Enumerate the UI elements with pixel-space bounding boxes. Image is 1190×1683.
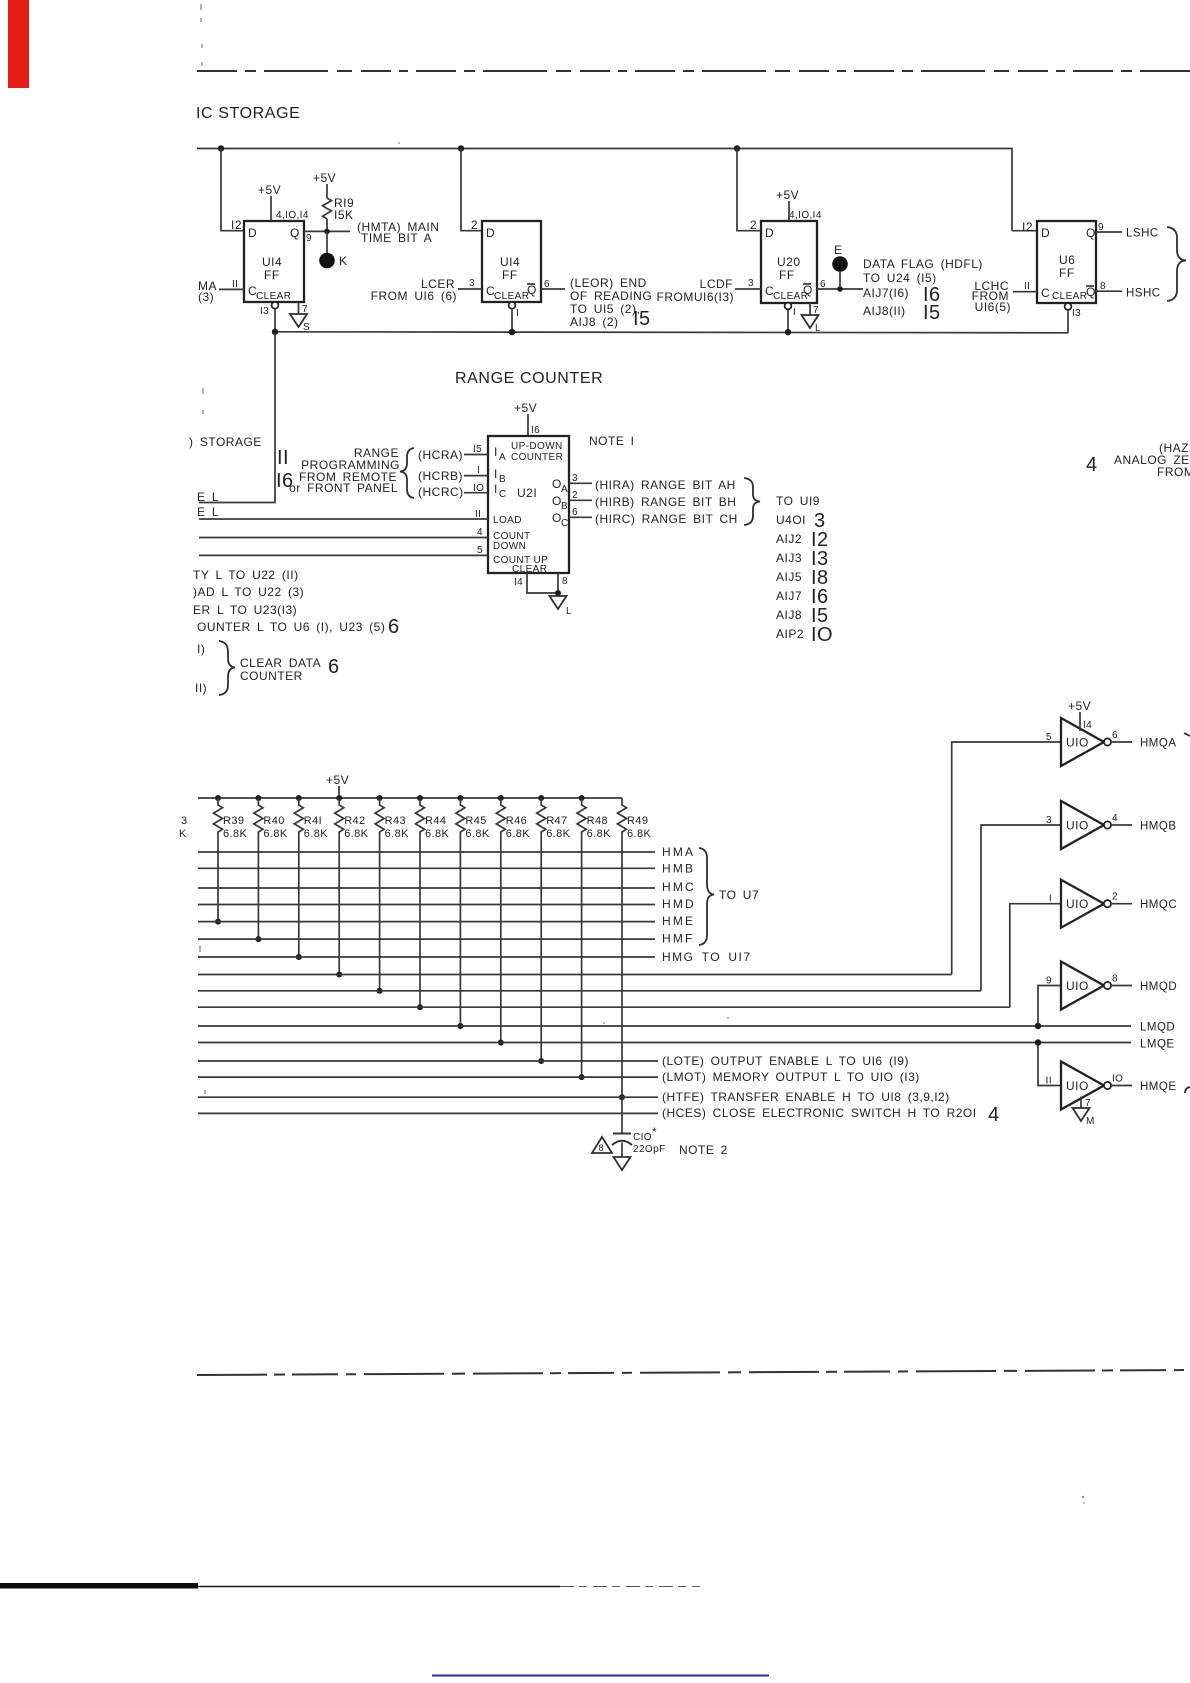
svg-text:or FRONT PANEL: or FRONT PANEL bbox=[289, 481, 398, 495]
left brace bbox=[400, 448, 414, 498]
svg-text:AIJ5: AIJ5 bbox=[776, 570, 802, 584]
svg-text:I5: I5 bbox=[633, 308, 651, 330]
svg-text:4: 4 bbox=[477, 527, 483, 538]
wire R46 down bbox=[500, 840, 502, 1043]
svg-text:COUNTER: COUNTER bbox=[511, 452, 563, 463]
bottom left black bar bbox=[0, 1583, 198, 1589]
wire: signal line 14 bbox=[198, 1076, 658, 1078]
svg-text:I2: I2 bbox=[1022, 220, 1033, 234]
wire: signal line 9 bbox=[198, 990, 981, 992]
faint specks bbox=[727, 1017, 729, 1019]
svg-text:2: 2 bbox=[750, 218, 757, 232]
svg-text:8: 8 bbox=[599, 1143, 604, 1153]
tick right of HMQA bbox=[1184, 733, 1190, 736]
wire: clear bus bbox=[275, 332, 1068, 333]
resistor R4I 6.8K bbox=[296, 795, 302, 801]
svg-text:DOWN: DOWN bbox=[493, 541, 526, 552]
svg-text:CLEAR DATA: CLEAR DATA bbox=[240, 656, 321, 670]
svg-text:FF: FF bbox=[502, 268, 518, 282]
svg-text:I: I bbox=[1049, 894, 1052, 905]
wire to U6 D bbox=[1012, 230, 1038, 232]
svg-text:AIJ7(I6): AIJ7(I6) bbox=[863, 286, 909, 300]
svg-text:K: K bbox=[179, 828, 187, 840]
svg-text:22OpF: 22OpF bbox=[633, 1144, 666, 1155]
svg-text:HMQD: HMQD bbox=[1140, 981, 1177, 993]
wire R49 down bbox=[621, 840, 623, 1097]
svg-text:2: 2 bbox=[471, 218, 478, 232]
svg-text:I: I bbox=[793, 307, 796, 318]
wire: resistor top rail bbox=[198, 797, 622, 799]
svg-text:L: L bbox=[566, 606, 572, 617]
wire COUNT UP pin 5 bbox=[199, 554, 488, 556]
svg-text:(HCRA): (HCRA) bbox=[418, 448, 463, 462]
node K (filled) bbox=[326, 231, 328, 253]
svg-text:I4: I4 bbox=[1083, 720, 1092, 731]
wire: signal line 15 bbox=[198, 1096, 658, 1098]
svg-text:HMQB: HMQB bbox=[1140, 821, 1177, 833]
svg-text:3: 3 bbox=[469, 278, 475, 289]
svg-text:CLEAR: CLEAR bbox=[256, 291, 291, 302]
wire: U14a pin13 down to E-L line bbox=[199, 332, 275, 503]
resistor R42 6.8K bbox=[336, 795, 342, 801]
wire R47 down bbox=[540, 840, 542, 1061]
svg-text:(HCES) CLOSE ELECTRONIC SWITCH: (HCES) CLOSE ELECTRONIC SWITCH H TO R2OI bbox=[662, 1106, 977, 1120]
svg-text:R4I: R4I bbox=[304, 815, 322, 827]
red scan artifact bar bbox=[8, 0, 29, 88]
pin 1 bubble bbox=[509, 302, 516, 309]
svg-text:6.8K: 6.8K bbox=[385, 828, 409, 840]
svg-text:9: 9 bbox=[1046, 976, 1052, 987]
svg-text:D: D bbox=[765, 226, 774, 240]
svg-text:RANGE COUNTER: RANGE COUNTER bbox=[455, 370, 603, 387]
svg-text:I: I bbox=[516, 308, 519, 319]
svg-text:A: A bbox=[561, 484, 568, 495]
svg-text:(LOTE) OUTPUT ENABLE L TO UI6: (LOTE) OUTPUT ENABLE L TO UI6 (I9) bbox=[662, 1054, 909, 1068]
svg-text:IO: IO bbox=[811, 624, 833, 646]
svg-text:(HTFE) TRANSFER ENABLE H TO UI: (HTFE) TRANSFER ENABLE H TO UI8 (3,9,I2) bbox=[662, 1090, 950, 1104]
resistor R46 6.8K bbox=[498, 795, 504, 801]
svg-text:3: 3 bbox=[181, 815, 188, 827]
svg-text:LOAD: LOAD bbox=[493, 515, 522, 526]
svg-text:+5V: +5V bbox=[776, 188, 799, 202]
svg-text:(LMOT) MEMORY OUTPUT L TO UIO: (LMOT) MEMORY OUTPUT L TO UIO (I3) bbox=[662, 1070, 920, 1084]
svg-text:UI4: UI4 bbox=[262, 255, 282, 269]
page edge dotted marks bbox=[200, 4, 205, 1094]
ground under C10 bbox=[614, 1157, 631, 1170]
flip-flop U20 box bbox=[761, 221, 817, 303]
svg-text:HMA: HMA bbox=[662, 845, 695, 859]
svg-text:8: 8 bbox=[562, 576, 568, 587]
svg-text:HMQE: HMQE bbox=[1140, 1081, 1177, 1093]
svg-text:R44: R44 bbox=[425, 815, 446, 827]
wire: signal line 12 bbox=[198, 1042, 1131, 1044]
svg-text:OUNTER L TO U6 (I), U23 (5): OUNTER L TO U6 (I), U23 (5) bbox=[197, 620, 385, 634]
svg-text:(HIRB) RANGE BIT BH: (HIRB) RANGE BIT BH bbox=[595, 495, 736, 509]
svg-text:II: II bbox=[277, 447, 289, 469]
svg-text:UIO: UIO bbox=[1066, 897, 1089, 911]
svg-text:I6: I6 bbox=[531, 425, 540, 436]
svg-text:AIJ8 (2): AIJ8 (2) bbox=[570, 315, 619, 329]
svg-text:+5V: +5V bbox=[258, 183, 281, 197]
svg-text:9: 9 bbox=[306, 233, 312, 244]
pin 13 bubble bbox=[272, 302, 279, 309]
svg-text:HMQC: HMQC bbox=[1140, 899, 1177, 911]
svg-text:FF: FF bbox=[1059, 266, 1075, 280]
svg-text:6.8K: 6.8K bbox=[506, 828, 530, 840]
svg-text:C: C bbox=[561, 518, 569, 529]
flip-flop U14a box bbox=[244, 221, 304, 302]
top dashed border line bbox=[197, 70, 1190, 72]
svg-text:6.8K: 6.8K bbox=[465, 828, 489, 840]
svg-text:II): II) bbox=[195, 681, 207, 695]
wire LOAD pin 11 bbox=[199, 518, 488, 520]
wire R4I down bbox=[298, 840, 300, 957]
svg-text:4,IO,I4: 4,IO,I4 bbox=[276, 210, 309, 221]
svg-text:K: K bbox=[339, 254, 348, 268]
svg-text:B: B bbox=[561, 501, 568, 512]
svg-text:I4: I4 bbox=[514, 577, 523, 588]
svg-text:I3: I3 bbox=[260, 306, 269, 317]
svg-text:(HCRB): (HCRB) bbox=[418, 469, 463, 483]
svg-text:HMG TO UI7: HMG TO UI7 bbox=[662, 950, 752, 964]
capacitor C10 220pF bbox=[621, 1097, 623, 1133]
pin 13 bubble U6 bbox=[1065, 303, 1072, 310]
svg-text:6.8K: 6.8K bbox=[344, 828, 368, 840]
wire to U14b D bbox=[461, 149, 482, 231]
wire to U20 D bbox=[737, 149, 761, 231]
svg-text:6: 6 bbox=[820, 279, 826, 290]
brace tick right of HMQE bbox=[1185, 1087, 1190, 1093]
svg-text:I5K: I5K bbox=[334, 208, 354, 222]
svg-text:CIO: CIO bbox=[633, 1132, 652, 1143]
svg-text:I: I bbox=[494, 445, 498, 459]
wire: signal line 7 bbox=[198, 956, 655, 958]
svg-text:AIJ7: AIJ7 bbox=[776, 589, 802, 603]
wire: signal line 11 bbox=[198, 1025, 1131, 1027]
buffer U10 HMQA bbox=[1061, 718, 1104, 766]
svg-text:E: E bbox=[834, 243, 843, 257]
svg-text:Q: Q bbox=[527, 283, 537, 297]
svg-text:6: 6 bbox=[572, 507, 578, 518]
svg-text:FROMUI6(I3): FROMUI6(I3) bbox=[657, 290, 735, 304]
svg-text:I6: I6 bbox=[276, 470, 294, 492]
svg-text:IO: IO bbox=[1112, 1074, 1123, 1085]
svg-text:FF: FF bbox=[779, 268, 795, 282]
wire: signal line 10 bbox=[198, 1006, 1010, 1008]
svg-text:*: * bbox=[652, 1125, 657, 1139]
wire: signal line 5 bbox=[198, 921, 655, 923]
svg-text:9: 9 bbox=[1098, 222, 1104, 233]
svg-text:(LEOR) END: (LEOR) END bbox=[570, 276, 647, 290]
svg-text:D: D bbox=[1041, 226, 1050, 240]
wire: signal line 13 bbox=[198, 1060, 658, 1062]
svg-text:R43: R43 bbox=[385, 815, 406, 827]
svg-text:LCDF: LCDF bbox=[700, 277, 733, 291]
svg-text:6.8K: 6.8K bbox=[223, 828, 247, 840]
resistor R49 6.8K bbox=[618, 798, 627, 840]
svg-text:IO: IO bbox=[473, 483, 484, 494]
svg-text:TO U7: TO U7 bbox=[719, 888, 759, 902]
svg-text:I: I bbox=[477, 465, 480, 476]
svg-text:II: II bbox=[232, 279, 238, 290]
svg-text:6.8K: 6.8K bbox=[587, 828, 611, 840]
wire R40 down bbox=[257, 840, 259, 939]
wire R45 down bbox=[459, 840, 461, 1026]
svg-text:2: 2 bbox=[572, 490, 578, 501]
svg-text:I5: I5 bbox=[923, 302, 941, 324]
U21 outputs (HIRA/HIRB/HIRC) bbox=[569, 482, 592, 484]
svg-text:TO UI9: TO UI9 bbox=[776, 494, 820, 508]
svg-text:6.8K: 6.8K bbox=[546, 828, 570, 840]
resistor R47 6.8K bbox=[538, 795, 544, 801]
svg-text:HME: HME bbox=[662, 914, 695, 928]
wire R42 down bbox=[338, 840, 340, 975]
svg-text:CLEAR: CLEAR bbox=[494, 291, 529, 302]
svg-text:Q: Q bbox=[803, 283, 813, 297]
svg-text:6: 6 bbox=[1112, 730, 1118, 741]
svg-text:3: 3 bbox=[748, 278, 754, 289]
svg-text:5: 5 bbox=[1046, 732, 1052, 743]
svg-text:6.8K: 6.8K bbox=[263, 828, 287, 840]
svg-text:6: 6 bbox=[544, 279, 550, 290]
warning triangle note 8 bbox=[592, 1137, 612, 1153]
svg-text:Q: Q bbox=[1086, 226, 1096, 240]
resistor R48 6.8K bbox=[579, 795, 585, 801]
svg-text:+5V: +5V bbox=[514, 401, 537, 415]
svg-text:I: I bbox=[494, 482, 498, 496]
svg-text:D: D bbox=[248, 226, 257, 240]
svg-text:UIO: UIO bbox=[1066, 819, 1089, 833]
svg-text:R46: R46 bbox=[506, 815, 527, 827]
svg-text:U20: U20 bbox=[777, 255, 801, 269]
svg-text:TO U24 (I5): TO U24 (I5) bbox=[863, 271, 937, 285]
resistor R40 6.8K bbox=[255, 795, 261, 801]
svg-text:HMB: HMB bbox=[662, 862, 695, 876]
LMQE tap to HMQE bbox=[1038, 1043, 1061, 1086]
wire R39 down bbox=[217, 840, 219, 922]
pin 7 ground S bbox=[298, 302, 300, 314]
pin 9 output LSHC bbox=[1096, 231, 1122, 233]
counter U21 box bbox=[488, 436, 569, 573]
svg-text:6.8K: 6.8K bbox=[627, 828, 651, 840]
wire: +5V top bus bbox=[197, 149, 1012, 231]
svg-text:U6: U6 bbox=[1059, 253, 1075, 267]
svg-text:6.8K: 6.8K bbox=[304, 828, 328, 840]
svg-text:AIP2: AIP2 bbox=[776, 627, 804, 641]
svg-text:R45: R45 bbox=[465, 815, 486, 827]
svg-text:5: 5 bbox=[477, 545, 483, 556]
svg-text:R48: R48 bbox=[587, 815, 608, 827]
svg-text:UIO: UIO bbox=[1066, 736, 1089, 750]
svg-text:6: 6 bbox=[328, 656, 340, 678]
ground M on HMQE buffer bbox=[1080, 1097, 1082, 1109]
svg-text:II: II bbox=[1024, 281, 1030, 292]
svg-text:6.8K: 6.8K bbox=[425, 828, 449, 840]
buffer U10 HMQC bbox=[1061, 880, 1104, 928]
svg-text:COUNTER: COUNTER bbox=[240, 669, 303, 683]
vertical wires up to buffers bbox=[952, 742, 1061, 975]
svg-text:UI4: UI4 bbox=[500, 255, 520, 269]
svg-text:+5V: +5V bbox=[313, 171, 336, 185]
svg-text:3: 3 bbox=[572, 473, 578, 484]
svg-text:LSHC: LSHC bbox=[1126, 228, 1159, 240]
svg-text:II: II bbox=[1046, 1076, 1052, 1087]
svg-text:C: C bbox=[1041, 286, 1050, 300]
svg-text:8: 8 bbox=[1112, 974, 1118, 985]
wire to U14a D bbox=[221, 149, 244, 231]
svg-text:LMQE: LMQE bbox=[1140, 1039, 1175, 1051]
svg-text:Q: Q bbox=[1086, 285, 1096, 299]
svg-text:NOTE 2: NOTE 2 bbox=[679, 1143, 728, 1157]
svg-text:TIME BIT A: TIME BIT A bbox=[361, 231, 432, 245]
svg-text:A: A bbox=[499, 452, 506, 463]
svg-text:D: D bbox=[486, 226, 495, 240]
svg-text:E L: E L bbox=[197, 490, 219, 504]
svg-text:TY L TO U22 (II): TY L TO U22 (II) bbox=[193, 568, 299, 582]
svg-text:AIJ2: AIJ2 bbox=[776, 532, 802, 546]
svg-text:FROM: FROM bbox=[1157, 465, 1190, 479]
svg-text:DATA FLAG (HDFL): DATA FLAG (HDFL) bbox=[863, 257, 983, 271]
wire: signal line 2 bbox=[198, 867, 655, 869]
pin 1 bubble U20 bbox=[785, 303, 792, 310]
node E (filled) bbox=[832, 256, 848, 272]
svg-text:4: 4 bbox=[988, 1104, 1000, 1126]
svg-text:UIO: UIO bbox=[1066, 1079, 1089, 1093]
brace right of HIRA/B/C bbox=[744, 478, 760, 525]
buffer U10 HMQD bbox=[1061, 962, 1104, 1010]
svg-text:UIO: UIO bbox=[1066, 979, 1089, 993]
svg-text:HMD: HMD bbox=[662, 897, 696, 911]
svg-text:TO UI5 (2),: TO UI5 (2), bbox=[570, 302, 640, 316]
wire: signal line 8 bbox=[198, 974, 952, 976]
resistor R43 6.8K bbox=[377, 795, 383, 801]
svg-text:UI6(5): UI6(5) bbox=[975, 300, 1011, 314]
svg-text:LMQD: LMQD bbox=[1140, 1022, 1175, 1034]
svg-text:U2I: U2I bbox=[517, 486, 537, 500]
svg-text:4,IO,I4: 4,IO,I4 bbox=[789, 210, 822, 221]
wire: signal line 16 bbox=[198, 1112, 658, 1114]
resistor R39 6.8K bbox=[215, 795, 221, 801]
svg-text:I: I bbox=[494, 467, 498, 481]
buffer U10 HMQE bbox=[1061, 1062, 1104, 1110]
svg-text:ER L TO U23(I3): ER L TO U23(I3) bbox=[193, 603, 297, 617]
svg-text:AIJ8(II): AIJ8(II) bbox=[863, 304, 906, 318]
node: bus junction dots bbox=[218, 145, 224, 151]
svg-text:4: 4 bbox=[1086, 454, 1098, 476]
svg-text:OF READING: OF READING bbox=[570, 289, 652, 303]
svg-text:I3: I3 bbox=[1072, 308, 1081, 319]
svg-text:6: 6 bbox=[388, 616, 400, 638]
wire R44 down bbox=[419, 840, 421, 1007]
blue underline bbox=[432, 1675, 769, 1677]
svg-text:II: II bbox=[475, 509, 481, 520]
svg-text:3: 3 bbox=[1046, 815, 1052, 826]
svg-text:FF: FF bbox=[264, 268, 280, 282]
wire Q output pin 9 bbox=[304, 230, 350, 232]
svg-text:I2: I2 bbox=[231, 218, 242, 232]
resistor R44 6.8K bbox=[417, 795, 423, 801]
svg-text:4: 4 bbox=[1112, 813, 1118, 824]
LMQD tap to HMQD bbox=[1038, 986, 1061, 1027]
svg-text:8: 8 bbox=[1100, 281, 1106, 292]
svg-text:Q: Q bbox=[290, 226, 300, 240]
svg-text:HMC: HMC bbox=[662, 880, 696, 894]
svg-text:AIJ8: AIJ8 bbox=[776, 608, 802, 622]
svg-text:HMQA: HMQA bbox=[1140, 738, 1177, 750]
bottom dashed border line bbox=[197, 1370, 1190, 1375]
svg-text:R40: R40 bbox=[263, 815, 284, 827]
svg-text:R49: R49 bbox=[627, 815, 648, 827]
flip-flop U6 box bbox=[1037, 221, 1096, 303]
svg-text:) STORAGE: ) STORAGE bbox=[189, 435, 262, 449]
flip-flop U14b box bbox=[482, 221, 541, 302]
wire COUNT DOWN pin 4 bbox=[199, 537, 488, 539]
svg-text:CLEAR: CLEAR bbox=[1052, 291, 1087, 302]
buffer U10 HMQB bbox=[1061, 801, 1104, 849]
svg-text:U4OI: U4OI bbox=[776, 513, 806, 527]
brace for TO U7 bbox=[699, 848, 714, 945]
svg-text:(3): (3) bbox=[198, 290, 214, 304]
svg-text:R39: R39 bbox=[223, 815, 244, 827]
svg-text:(HIRC) RANGE BIT CH: (HIRC) RANGE BIT CH bbox=[595, 512, 738, 526]
svg-text:E L: E L bbox=[197, 505, 219, 519]
svg-text:I5: I5 bbox=[473, 444, 482, 455]
wire R43 down bbox=[379, 840, 381, 991]
svg-text:(HIRA) RANGE BIT AH: (HIRA) RANGE BIT AH bbox=[595, 478, 736, 492]
U21 pin 14 and 8 to ground bbox=[527, 573, 558, 593]
svg-text:M: M bbox=[1086, 1116, 1095, 1127]
wire R48 down bbox=[581, 840, 583, 1077]
svg-text:FROM UI6 (6): FROM UI6 (6) bbox=[371, 289, 457, 303]
brace right of LSHC/HSHC bbox=[1167, 227, 1186, 301]
wire: signal line 1 bbox=[198, 851, 655, 853]
svg-text:HSHC: HSHC bbox=[1126, 288, 1161, 300]
svg-text:+5V: +5V bbox=[326, 773, 349, 787]
svg-text:HMF: HMF bbox=[662, 932, 695, 946]
svg-text:(HCRC): (HCRC) bbox=[418, 485, 464, 499]
svg-text:NOTE I: NOTE I bbox=[589, 434, 635, 448]
wire: signal line 6 bbox=[198, 938, 655, 940]
svg-text:R47: R47 bbox=[546, 815, 567, 827]
wire: signal line 4 bbox=[198, 904, 655, 906]
svg-text:B: B bbox=[499, 474, 506, 485]
svg-text:IC STORAGE: IC STORAGE bbox=[196, 105, 300, 122]
svg-text:CLEAR: CLEAR bbox=[512, 564, 547, 575]
pin 7 ground L bbox=[809, 303, 811, 315]
svg-text:C: C bbox=[499, 489, 507, 500]
svg-text:R42: R42 bbox=[344, 815, 365, 827]
svg-text:)AD L TO U22 (3): )AD L TO U22 (3) bbox=[193, 585, 304, 599]
svg-text:2: 2 bbox=[1112, 892, 1118, 903]
svg-text:AIJ3: AIJ3 bbox=[776, 551, 802, 565]
wire: signal line 3 bbox=[198, 887, 655, 889]
svg-text:UP-DOWN: UP-DOWN bbox=[511, 441, 563, 452]
svg-text:I): I) bbox=[197, 642, 205, 656]
resistor R45 6.8K bbox=[457, 795, 463, 801]
svg-text:+5V: +5V bbox=[1068, 699, 1091, 713]
